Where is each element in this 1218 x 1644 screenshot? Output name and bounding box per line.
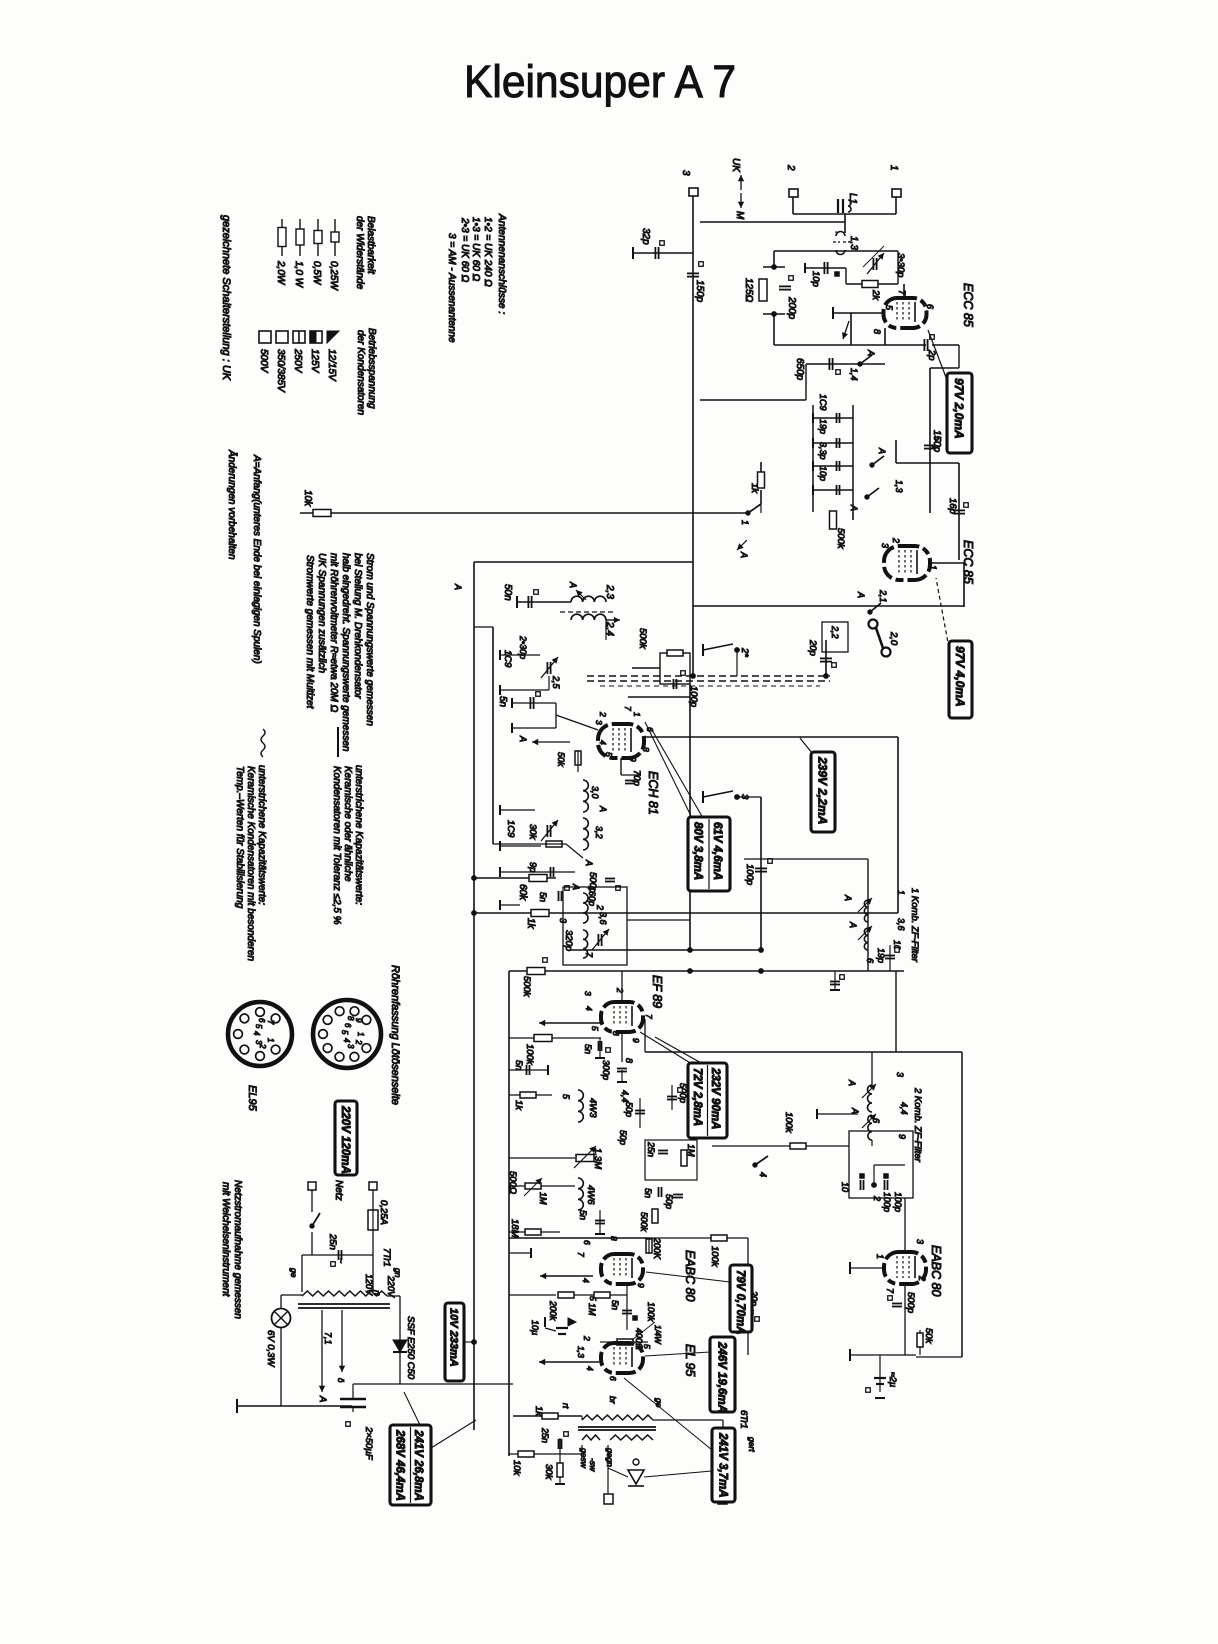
svg-text:unterstrichene Kapazitätswerte: unterstrichene Kapazitätswerte: bbox=[353, 765, 364, 905]
svg-text:A: A bbox=[518, 735, 528, 742]
svg-text:Keramische oder ähnliche: Keramische oder ähnliche bbox=[342, 766, 353, 882]
svg-text:300p: 300p bbox=[601, 1060, 611, 1080]
svg-text:6Tr1: 6Tr1 bbox=[738, 1410, 749, 1429]
svg-text:7: 7 bbox=[623, 706, 633, 711]
svg-text:1C9: 1C9 bbox=[818, 394, 828, 411]
svg-text:Röhrenfassung Lötösenseite: Röhrenfassung Lötösenseite bbox=[389, 965, 401, 1105]
svg-text:1,3M: 1,3M bbox=[592, 1148, 603, 1169]
svg-text:268V 46,4mA: 268V 46,4mA bbox=[393, 1429, 405, 1501]
svg-text:100p: 100p bbox=[882, 1192, 892, 1212]
svg-text:A: A bbox=[850, 1107, 860, 1114]
svg-text:30k: 30k bbox=[543, 1464, 554, 1481]
svg-text:Kondensatoren mit Toleranz ≤2,: Kondensatoren mit Toleranz ≤2,5 % bbox=[331, 766, 342, 925]
svg-text:2: 2 bbox=[354, 1039, 363, 1045]
svg-text:EABC 80: EABC 80 bbox=[683, 1250, 697, 1301]
svg-text:3: 3 bbox=[915, 1239, 925, 1244]
svg-text:3: 3 bbox=[583, 991, 593, 996]
svg-text:20p: 20p bbox=[807, 639, 818, 656]
svg-text:25n: 25n bbox=[646, 1141, 656, 1157]
svg-text:8: 8 bbox=[872, 329, 882, 334]
svg-text:7: 7 bbox=[266, 1020, 275, 1025]
svg-text:6: 6 bbox=[865, 958, 875, 963]
svg-text:5n: 5n bbox=[643, 1188, 653, 1198]
svg-text:4,4: 4,4 bbox=[899, 1102, 909, 1115]
svg-text:500p: 500p bbox=[678, 1083, 688, 1103]
svg-text:1,0 W: 1,0 W bbox=[293, 261, 304, 289]
svg-text:2: 2 bbox=[785, 164, 796, 171]
svg-text:2×50µF: 2×50µF bbox=[363, 1426, 374, 1461]
svg-text:100p: 100p bbox=[744, 864, 755, 885]
svg-text:3: 3 bbox=[895, 1072, 905, 1077]
svg-text:8: 8 bbox=[346, 1016, 355, 1021]
svg-text:32p: 32p bbox=[640, 228, 651, 245]
svg-text:100k: 100k bbox=[709, 1246, 720, 1268]
svg-text:Stromwerte gemessen mit Multiz: Stromwerte gemessen mit Multizet bbox=[304, 555, 315, 710]
svg-text:gegn: gegn bbox=[605, 1448, 615, 1467]
svg-text:4,4: 4,4 bbox=[620, 1090, 630, 1103]
svg-text:1k: 1k bbox=[533, 1406, 544, 1417]
svg-text:650p: 650p bbox=[794, 358, 805, 381]
svg-text:1,3: 1,3 bbox=[848, 236, 859, 250]
svg-text:61V 4,6mA: 61V 4,6mA bbox=[711, 822, 723, 880]
svg-text:1: 1 bbox=[266, 1038, 275, 1042]
svg-text:4: 4 bbox=[581, 1278, 591, 1283]
svg-text:7,1: 7,1 bbox=[323, 1332, 333, 1345]
svg-text:unterstrichene Kapazitätswerte: unterstrichene Kapazitätswerte: bbox=[256, 765, 267, 905]
svg-text:200p: 200p bbox=[786, 296, 797, 320]
svg-text:Betriebsspannung: Betriebsspannung bbox=[366, 328, 377, 409]
svg-text:ECC 85: ECC 85 bbox=[961, 283, 975, 327]
svg-text:der Widerstände: der Widerstände bbox=[354, 216, 365, 290]
svg-text:3 = AM - Aussenantenne: 3 = AM - Aussenantenne bbox=[446, 233, 457, 343]
svg-text:7Tr1: 7Tr1 bbox=[381, 1248, 392, 1267]
svg-text:rt: rt bbox=[561, 1403, 571, 1409]
svg-text:2: 2 bbox=[258, 1043, 267, 1049]
svg-text:1: 1 bbox=[928, 565, 938, 570]
svg-text:2,2: 2,2 bbox=[830, 625, 840, 639]
svg-text:6: 6 bbox=[608, 1376, 618, 1381]
svg-text:500k: 500k bbox=[637, 628, 648, 650]
svg-text:gezeichnete Schalterstellung :: gezeichnete Schalterstellung : UK bbox=[220, 215, 232, 381]
svg-text:2: 2 bbox=[595, 904, 605, 910]
svg-text:250V: 250V bbox=[292, 348, 303, 374]
svg-text:1: 1 bbox=[632, 712, 642, 717]
svg-text:halb eingedreht. Spannungswert: halb eingedreht. Spannungswerte gemessen bbox=[340, 553, 351, 752]
svg-text:ECC 85: ECC 85 bbox=[961, 540, 975, 584]
svg-text:Antennenanschlüsse :: Antennenanschlüsse : bbox=[496, 213, 507, 314]
svg-text:A: A bbox=[584, 859, 594, 866]
svg-text:3: 3 bbox=[594, 720, 604, 725]
svg-text:-sw: -sw bbox=[588, 1458, 598, 1472]
svg-text:1M: 1M bbox=[686, 1144, 696, 1157]
svg-text:UK: UK bbox=[730, 158, 741, 173]
svg-text:10k: 10k bbox=[302, 490, 313, 507]
svg-text:2,0: 2,0 bbox=[888, 631, 899, 646]
svg-text:A: A bbox=[598, 805, 608, 812]
svg-text:2,5: 2,5 bbox=[551, 675, 561, 690]
svg-text:10µ: 10µ bbox=[530, 1320, 540, 1335]
svg-text:5n: 5n bbox=[497, 696, 508, 708]
svg-text:12/15V: 12/15V bbox=[326, 349, 337, 382]
svg-text:19p: 19p bbox=[818, 419, 828, 434]
svg-text:6: 6 bbox=[871, 1118, 881, 1123]
svg-text:500k: 500k bbox=[835, 528, 846, 550]
svg-text:A: A bbox=[317, 1395, 328, 1402]
svg-text:125Ω: 125Ω bbox=[743, 278, 754, 303]
svg-text:1: 1 bbox=[740, 520, 750, 525]
svg-text:160p: 160p bbox=[587, 886, 597, 906]
svg-text:220V 120mA: 220V 120mA bbox=[339, 1105, 351, 1174]
svg-text:50p: 50p bbox=[624, 1102, 634, 1117]
svg-text:6V 0,3W: 6V 0,3W bbox=[265, 1330, 276, 1367]
svg-text:100k: 100k bbox=[646, 1302, 656, 1322]
svg-text:mit Röhrenvoltmeter R≈etwa 20M: mit Röhrenvoltmeter R≈etwa 20M Ω bbox=[328, 553, 339, 713]
svg-text:Belastbarkeit: Belastbarkeit bbox=[365, 216, 376, 275]
svg-text:5n: 5n bbox=[578, 1210, 588, 1220]
svg-text:2,1: 2,1 bbox=[878, 589, 888, 603]
svg-text:8: 8 bbox=[641, 747, 651, 752]
svg-text:2: 2 bbox=[917, 1275, 927, 1281]
svg-text:350/385V: 350/385V bbox=[275, 349, 286, 393]
svg-text:1,3: 1,3 bbox=[894, 480, 904, 493]
svg-text:bei Stellung M. Drehkondensato: bei Stellung M. Drehkondensator bbox=[352, 553, 363, 699]
svg-text:97V 2,0mA: 97V 2,0mA bbox=[952, 378, 966, 439]
svg-text:18M: 18M bbox=[509, 1219, 520, 1238]
svg-text:241V 26,8mA: 241V 26,8mA bbox=[412, 1429, 424, 1501]
svg-text:100p: 100p bbox=[893, 1192, 903, 1212]
svg-text:A: A bbox=[847, 1079, 857, 1086]
svg-text:1•2 = UK 240 Ω: 1•2 = UK 240 Ω bbox=[482, 217, 493, 287]
svg-text:gert: gert bbox=[747, 1437, 757, 1452]
svg-text:M: M bbox=[734, 211, 745, 220]
svg-text:2: 2 bbox=[891, 537, 901, 543]
svg-text:br: br bbox=[608, 1396, 618, 1405]
svg-text:241V 3,7mA: 241V 3,7mA bbox=[716, 1432, 728, 1498]
svg-text:220V: 220V bbox=[386, 1275, 396, 1298]
svg-text:7: 7 bbox=[644, 1014, 654, 1019]
svg-text:50p: 50p bbox=[664, 1194, 674, 1209]
svg-text:0,25W: 0,25W bbox=[328, 261, 339, 291]
svg-text:150p: 150p bbox=[931, 430, 942, 453]
svg-text:3: 3 bbox=[880, 543, 890, 548]
svg-text:1M: 1M bbox=[538, 1192, 548, 1205]
svg-text:320p: 320p bbox=[563, 930, 574, 951]
svg-text:9: 9 bbox=[631, 1038, 641, 1043]
svg-text:A=Anfang(unteres Ende bei einl: A=Anfang(unteres Ende bei einlagigen Spu… bbox=[251, 454, 262, 664]
svg-text:3,3p: 3,3p bbox=[818, 442, 828, 460]
svg-text:1,3: 1,3 bbox=[576, 1346, 586, 1358]
svg-text:Netz: Netz bbox=[333, 1180, 344, 1201]
svg-text:80V 3,8mA: 80V 3,8mA bbox=[692, 822, 704, 880]
svg-text:4: 4 bbox=[598, 740, 608, 745]
svg-text:EABC 80: EABC 80 bbox=[929, 1245, 943, 1296]
svg-text:50k: 50k bbox=[556, 752, 566, 767]
svg-text:Strom und Spannungswerte gemes: Strom und Spannungswerte gemessen bbox=[364, 553, 375, 726]
svg-text:2 Komb. ZF-Filter: 2 Komb. ZF-Filter bbox=[912, 1087, 923, 1163]
svg-text:3,6: 3,6 bbox=[896, 918, 906, 931]
svg-text:1 Komb. ZF-Filter: 1 Komb. ZF-Filter bbox=[909, 888, 920, 963]
svg-text:4W6: 4W6 bbox=[585, 1185, 596, 1205]
svg-text:3: 3 bbox=[346, 1044, 355, 1049]
svg-text:50n: 50n bbox=[502, 584, 513, 601]
svg-text:A: A bbox=[849, 504, 859, 511]
svg-text:125V: 125V bbox=[309, 349, 320, 374]
svg-text:Keramische Kondensatoren mit b: Keramische Kondensatoren mit besonderen bbox=[245, 766, 256, 962]
svg-text:9: 9 bbox=[636, 1283, 646, 1288]
svg-text:150p: 150p bbox=[694, 280, 705, 303]
svg-text:2: 2 bbox=[598, 711, 608, 717]
svg-text:1C9: 1C9 bbox=[502, 650, 513, 668]
svg-text:1C9: 1C9 bbox=[505, 820, 516, 838]
svg-text:≈2µ: ≈2µ bbox=[888, 1372, 898, 1387]
svg-text:2•3 = UK 60 Ω: 2•3 = UK 60 Ω bbox=[459, 217, 470, 283]
svg-text:1M: 1M bbox=[587, 1303, 597, 1316]
svg-text:1: 1 bbox=[875, 1254, 885, 1259]
svg-text:10V 233mA: 10V 233mA bbox=[448, 1308, 460, 1367]
svg-text:8: 8 bbox=[609, 1236, 619, 1241]
svg-text:A: A bbox=[453, 583, 463, 590]
svg-text:gesw: gesw bbox=[579, 1448, 589, 1469]
svg-text:2,3: 2,3 bbox=[604, 584, 615, 599]
svg-text:5: 5 bbox=[590, 1026, 600, 1031]
svg-text:6: 6 bbox=[257, 1018, 266, 1023]
svg-text:A: A bbox=[856, 591, 866, 598]
svg-text:3,0: 3,0 bbox=[590, 786, 600, 799]
svg-text:232V 90mA: 232V 90mA bbox=[709, 1067, 721, 1129]
svg-text:2k: 2k bbox=[870, 289, 881, 301]
svg-text:1k: 1k bbox=[525, 918, 536, 930]
svg-text:1: 1 bbox=[896, 890, 906, 895]
svg-text:4: 4 bbox=[252, 1031, 261, 1036]
svg-text:2*: 2* bbox=[739, 647, 750, 657]
svg-text:Temp.–Werten für Stabilisierun: Temp.–Werten für Stabilisierung bbox=[234, 766, 245, 909]
svg-text:0,5W: 0,5W bbox=[311, 261, 322, 286]
svg-text:9p: 9p bbox=[527, 862, 538, 873]
svg-text:239V 2,2mA: 239V 2,2mA bbox=[816, 756, 830, 824]
svg-text:1•3 = UK 60 Ω: 1•3 = UK 60 Ω bbox=[470, 217, 481, 282]
svg-text:ge: ge bbox=[289, 1268, 299, 1278]
svg-text:10k: 10k bbox=[511, 1460, 522, 1477]
svg-text:72V 2,8mA: 72V 2,8mA bbox=[691, 1068, 703, 1126]
svg-text:EF 89: EF 89 bbox=[650, 975, 664, 1008]
svg-text:7: 7 bbox=[576, 1252, 586, 1257]
svg-text:25n: 25n bbox=[540, 1427, 550, 1443]
svg-text:3,6: 3,6 bbox=[598, 912, 608, 925]
svg-text:A: A bbox=[848, 921, 858, 928]
svg-text:EL95: EL95 bbox=[246, 1085, 258, 1112]
svg-text:1: 1 bbox=[356, 1032, 365, 1036]
svg-text:5n: 5n bbox=[610, 1300, 620, 1310]
svg-text:~: ~ bbox=[336, 1258, 346, 1263]
svg-text:9: 9 bbox=[628, 757, 638, 762]
svg-text:5n: 5n bbox=[538, 892, 548, 902]
svg-text:2,0W: 2,0W bbox=[275, 260, 286, 286]
svg-text:4: 4 bbox=[584, 1006, 594, 1011]
svg-text:1k: 1k bbox=[513, 1100, 524, 1111]
svg-text:3: 3 bbox=[680, 170, 691, 176]
svg-text:5: 5 bbox=[340, 1030, 349, 1035]
svg-text:A: A bbox=[877, 447, 887, 454]
svg-text:5n: 5n bbox=[583, 1044, 593, 1054]
svg-text:97V 4,0mA: 97V 4,0mA bbox=[953, 646, 967, 707]
svg-text:50k: 50k bbox=[923, 1328, 934, 1345]
svg-text:10p: 10p bbox=[818, 466, 828, 481]
svg-text:6: 6 bbox=[343, 1023, 352, 1028]
svg-text:3•30p: 3•30p bbox=[895, 253, 906, 277]
svg-text:4: 4 bbox=[758, 1172, 768, 1177]
svg-text:500V: 500V bbox=[258, 349, 269, 374]
svg-text:A: A bbox=[571, 883, 581, 890]
svg-text:ö: ö bbox=[336, 1378, 345, 1383]
svg-text:2: 2 bbox=[872, 1195, 882, 1201]
svg-text:100k: 100k bbox=[524, 1044, 535, 1066]
svg-text:10p: 10p bbox=[810, 271, 821, 287]
svg-text:2: 2 bbox=[615, 987, 625, 993]
svg-text:9: 9 bbox=[897, 1134, 907, 1139]
svg-text:79V 0,70mA: 79V 0,70mA bbox=[734, 1270, 746, 1335]
svg-text:19p: 19p bbox=[876, 948, 886, 963]
svg-text:500k: 500k bbox=[639, 1212, 649, 1232]
svg-text:1,4: 1,4 bbox=[849, 368, 859, 381]
svg-text:5: 5 bbox=[254, 1024, 263, 1029]
svg-text:5: 5 bbox=[604, 752, 614, 757]
svg-text:8: 8 bbox=[624, 1058, 634, 1063]
svg-text:8: 8 bbox=[611, 1031, 621, 1036]
svg-text:6: 6 bbox=[582, 1240, 592, 1245]
svg-text:5: 5 bbox=[642, 1344, 652, 1349]
svg-text:A: A bbox=[866, 349, 876, 356]
svg-text:Netzstromaufnahme gemessen: Netzstromaufnahme gemessen bbox=[232, 1180, 243, 1319]
svg-text:4: 4 bbox=[585, 1366, 595, 1371]
svg-text:25n: 25n bbox=[327, 1233, 338, 1250]
svg-text:500Ω: 500Ω bbox=[507, 1171, 518, 1194]
svg-text:0,25A: 0,25A bbox=[378, 1200, 389, 1225]
svg-text:A: A bbox=[843, 894, 853, 901]
svg-text:200k: 200k bbox=[548, 1300, 558, 1321]
svg-text:500k: 500k bbox=[521, 976, 532, 998]
svg-text:4: 4 bbox=[342, 1038, 351, 1043]
svg-text:ECH 81: ECH 81 bbox=[646, 771, 660, 815]
svg-text:4W3: 4W3 bbox=[587, 1098, 598, 1118]
svg-text:60k: 60k bbox=[517, 884, 528, 901]
svg-text:10: 10 bbox=[840, 1182, 850, 1192]
svg-text:L1: L1 bbox=[847, 193, 858, 204]
svg-text:2: 2 bbox=[582, 1335, 592, 1341]
svg-text:A: A bbox=[739, 551, 749, 558]
svg-text:16p: 16p bbox=[947, 498, 958, 514]
svg-text:A: A bbox=[568, 581, 578, 588]
svg-text:6: 6 bbox=[925, 304, 935, 309]
svg-text:3,2: 3,2 bbox=[594, 826, 604, 839]
svg-text:EL 95: EL 95 bbox=[683, 1344, 697, 1376]
svg-text:1/4W: 1/4W bbox=[653, 1325, 662, 1345]
svg-text:50p: 50p bbox=[618, 1130, 628, 1145]
svg-text:der Kondensatoren: der Kondensatoren bbox=[355, 330, 366, 416]
svg-text:SSF E250 C50: SSF E250 C50 bbox=[405, 1316, 416, 1380]
svg-text:5n: 5n bbox=[513, 1060, 524, 1071]
svg-text:Änderungen vorbehalten: Änderungen vorbehalten bbox=[226, 449, 238, 560]
svg-text:100k: 100k bbox=[783, 1112, 794, 1134]
svg-text:246V 19,6mA: 246V 19,6mA bbox=[715, 1341, 727, 1413]
svg-text:70p: 70p bbox=[631, 770, 642, 786]
svg-text:1: 1 bbox=[888, 165, 899, 171]
svg-text:200K: 200K bbox=[652, 1237, 662, 1260]
svg-text:500p: 500p bbox=[905, 1292, 916, 1313]
svg-text:mit Weicheiseninstrument: mit Weicheiseninstrument bbox=[220, 1182, 231, 1298]
svg-text:Kleinsuper A 7: Kleinsuper A 7 bbox=[464, 56, 736, 107]
svg-text:30k: 30k bbox=[527, 824, 538, 841]
svg-text:UK Spannungen zusätzlich: UK Spannungen zusätzlich bbox=[316, 553, 327, 674]
